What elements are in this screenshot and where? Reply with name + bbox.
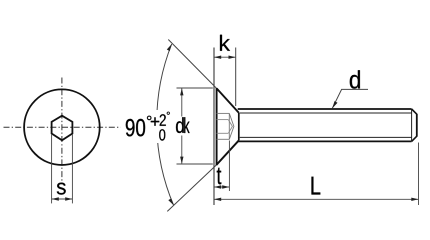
90deg dimension arc — [157, 44, 174, 205]
90deg cone extension line top — [168, 40, 216, 89]
L dimension line — [214, 198, 419, 201]
s extension line right — [71, 134, 73, 203]
shank outer top line — [238, 108, 412, 110]
label s — [57, 183, 66, 195]
label d — [350, 70, 360, 88]
t extension line right — [228, 141, 230, 192]
label deg-90 — [147, 116, 151, 120]
label tol-2 — [160, 114, 166, 126]
label deg-2 — [167, 112, 170, 115]
label dk-d — [176, 117, 184, 133]
hex socket (top view) — [52, 116, 73, 141]
dk dimension line with arrows — [180, 88, 183, 164]
dk extension line top — [177, 87, 213, 89]
thread minor bottom line — [240, 136, 412, 138]
hex socket side view: outer top line — [217, 112, 230, 114]
cone-shank junction edge — [238, 113, 240, 140]
thread minor top line — [240, 112, 412, 114]
L extension line right — [418, 143, 420, 206]
label dk-k — [184, 117, 189, 133]
label t — [217, 168, 222, 185]
hex socket side view: inner chevron — [228, 120, 232, 134]
d leader arrowhead — [332, 101, 337, 108]
k extension line left (also L extension, long) — [213, 48, 215, 206]
dk extension line bottom — [177, 163, 213, 165]
label k — [220, 35, 230, 51]
left view: vertical centerline — [61, 78, 63, 182]
label 90 — [126, 119, 145, 136]
head outline circle (dk) — [24, 89, 100, 165]
head cone top edge — [217, 88, 239, 113]
shank outer bottom line — [238, 140, 412, 142]
hex socket side view: inner bottom line — [217, 132, 229, 134]
k dimension line — [214, 56, 236, 59]
label L — [312, 177, 321, 195]
90deg cone extension line bottom — [167, 165, 216, 212]
t dimension line — [214, 185, 229, 188]
tip chamfer edge circle — [411, 109, 413, 141]
s dimension line — [52, 197, 73, 200]
screw head face (flat, left) — [216, 88, 218, 165]
arc arrowhead bottom — [168, 198, 173, 205]
hex socket side view: inner top line — [217, 119, 229, 121]
white knockout behind angle tolerance text — [149, 110, 177, 143]
left view: horizontal centerline — [4, 126, 121, 128]
k extension line right — [235, 48, 237, 107]
d leader line — [332, 89, 368, 108]
tip chamfer top — [412, 109, 417, 114]
hex socket side view: end vertical — [228, 113, 230, 139]
hex socket side view: outer bottom line — [217, 138, 230, 140]
label plus — [151, 117, 159, 125]
head cone bottom edge — [217, 140, 239, 164]
label tol-0 — [159, 129, 165, 140]
arc arrowhead top — [167, 44, 172, 51]
tip chamfer bottom — [412, 136, 417, 141]
s extension line left — [51, 134, 53, 203]
hex socket side view: outer drill point chevron — [229, 113, 234, 139]
tip end face — [416, 114, 418, 137]
